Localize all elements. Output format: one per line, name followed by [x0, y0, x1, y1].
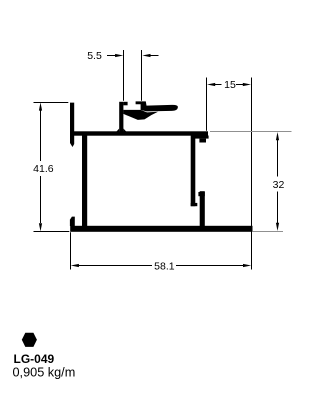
svg-text:15: 15: [224, 79, 236, 91]
svg-text:41.6: 41.6: [33, 163, 54, 175]
svg-text:0,905 kg/m: 0,905 kg/m: [13, 365, 76, 379]
svg-text:58.1: 58.1: [154, 260, 175, 272]
svg-text:LG-049: LG-049: [14, 352, 55, 366]
svg-text:5.5: 5.5: [87, 50, 102, 62]
svg-text:32: 32: [273, 179, 285, 191]
